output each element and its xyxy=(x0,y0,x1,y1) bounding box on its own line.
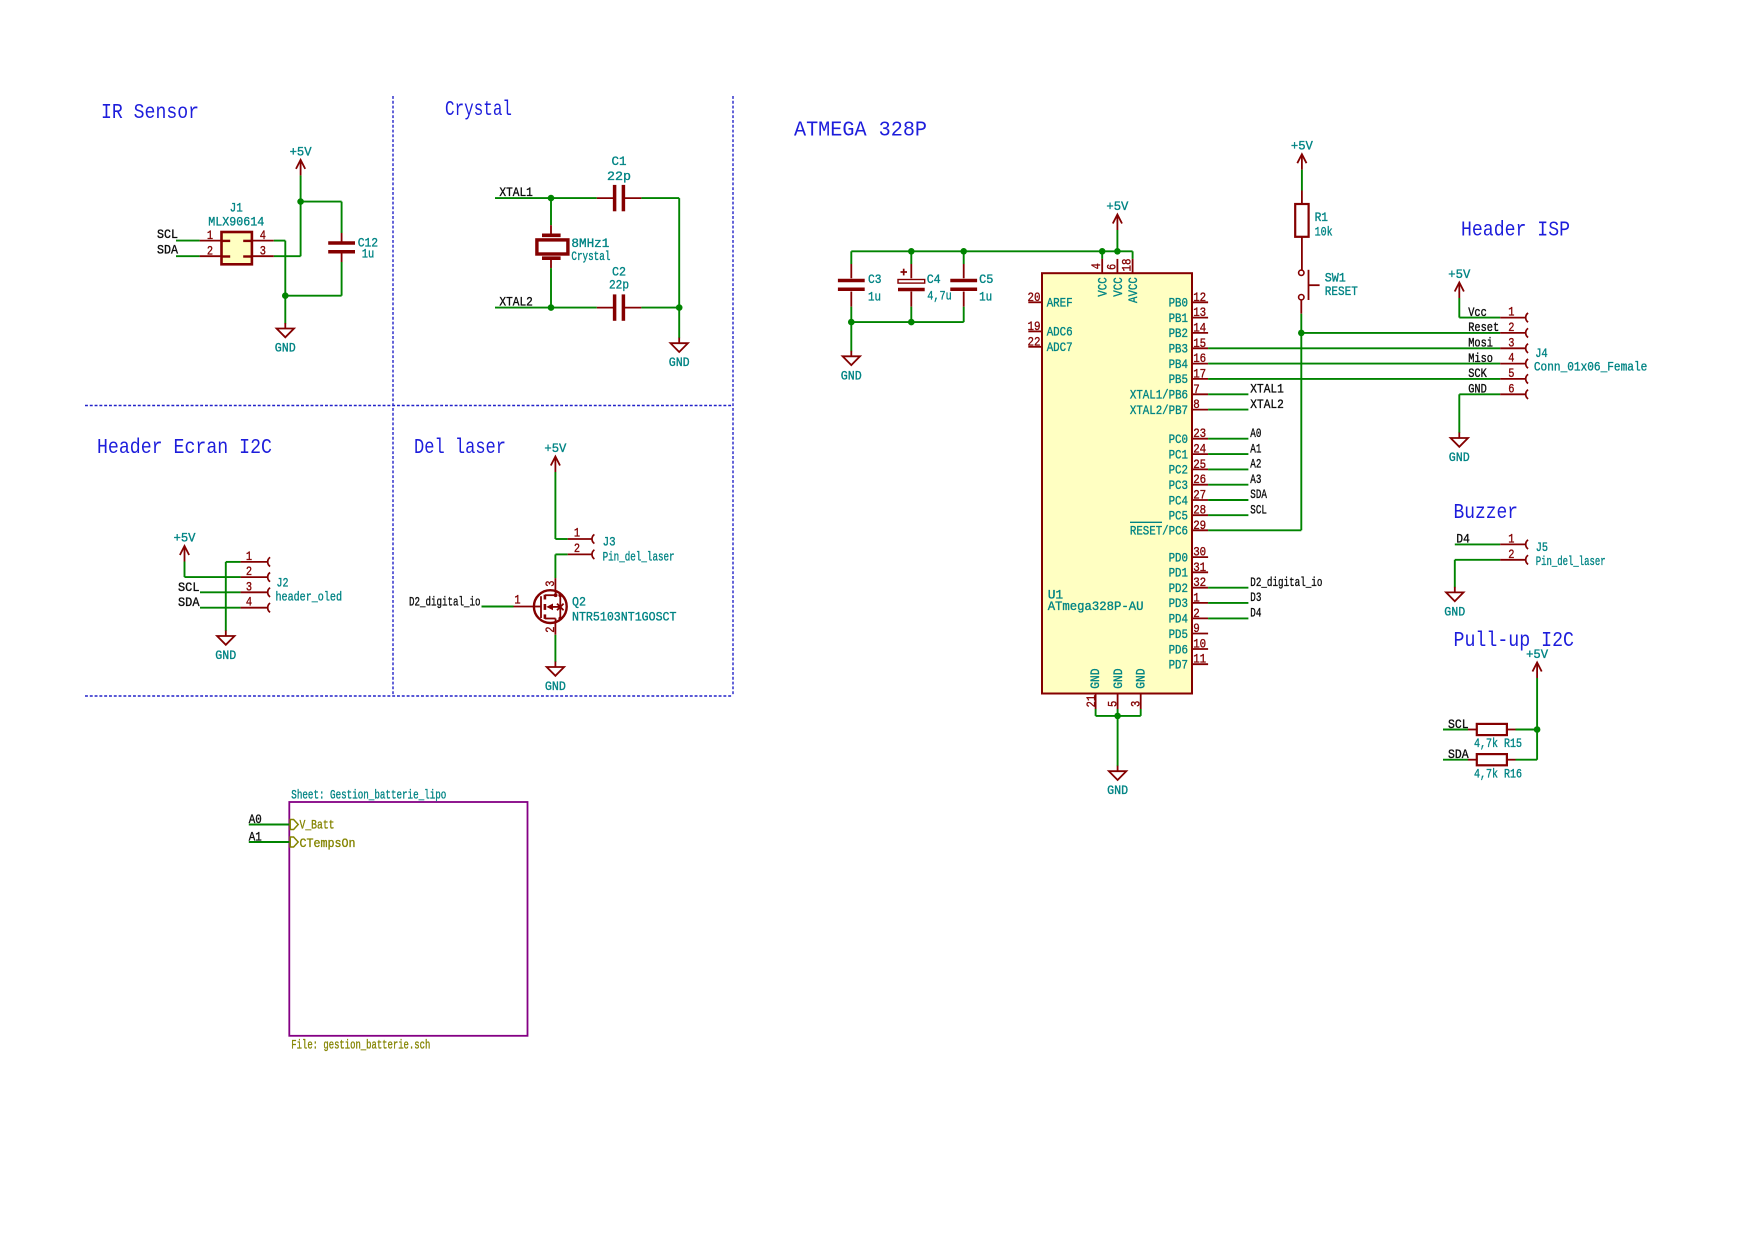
svg-text:22p: 22p xyxy=(609,278,629,293)
svg-text:header_oled: header_oled xyxy=(276,590,343,605)
svg-text:+5V: +5V xyxy=(290,144,312,159)
svg-text:4: 4 xyxy=(246,595,252,610)
svg-text:1: 1 xyxy=(207,228,213,243)
svg-text:Mosi: Mosi xyxy=(1468,336,1493,351)
svg-text:SDA: SDA xyxy=(178,595,200,610)
svg-text:C4: C4 xyxy=(927,272,941,287)
svg-text:10: 10 xyxy=(1193,637,1206,652)
svg-text:Del laser: Del laser xyxy=(414,437,506,460)
svg-text:13: 13 xyxy=(1193,305,1206,320)
svg-text:20: 20 xyxy=(1028,290,1041,305)
svg-text:4: 4 xyxy=(260,228,266,243)
svg-text:Crystal: Crystal xyxy=(445,99,512,122)
svg-text:4,7k R16: 4,7k R16 xyxy=(1474,766,1522,781)
svg-text:+5V: +5V xyxy=(1448,267,1470,282)
svg-text:XTAL1: XTAL1 xyxy=(1250,382,1284,397)
svg-text:SDA: SDA xyxy=(157,243,178,258)
svg-text:2: 2 xyxy=(574,541,580,556)
svg-text:24: 24 xyxy=(1193,442,1206,457)
svg-text:PB5: PB5 xyxy=(1169,372,1188,387)
svg-text:3: 3 xyxy=(1129,701,1144,707)
svg-text:PB3: PB3 xyxy=(1169,342,1188,357)
svg-text:1: 1 xyxy=(1508,305,1514,320)
svg-text:XTAL1/PB6: XTAL1/PB6 xyxy=(1130,388,1188,403)
svg-text:A2: A2 xyxy=(1250,457,1261,472)
svg-text:23: 23 xyxy=(1193,426,1206,441)
svg-text:2: 2 xyxy=(246,564,252,579)
svg-text:9: 9 xyxy=(1193,621,1200,636)
svg-text:Conn_01x06_Female: Conn_01x06_Female xyxy=(1534,360,1647,375)
svg-text:RESET/PC6: RESET/PC6 xyxy=(1130,524,1188,539)
svg-text:10k: 10k xyxy=(1315,224,1333,239)
svg-text:31: 31 xyxy=(1193,560,1206,575)
svg-text:6: 6 xyxy=(1508,381,1514,396)
svg-text:4,7u: 4,7u xyxy=(927,288,952,303)
svg-text:RESET: RESET xyxy=(1325,284,1358,299)
svg-text:GND: GND xyxy=(1088,668,1103,688)
svg-text:+5V: +5V xyxy=(1291,139,1313,154)
svg-text:GND: GND xyxy=(275,341,296,356)
svg-text:4: 4 xyxy=(1508,351,1514,366)
svg-text:PD1: PD1 xyxy=(1169,566,1189,581)
svg-text:SCL: SCL xyxy=(178,580,200,595)
svg-text:VCC: VCC xyxy=(1111,277,1126,297)
svg-text:GND: GND xyxy=(1134,668,1149,688)
svg-text:15: 15 xyxy=(1193,336,1206,351)
svg-text:Buzzer: Buzzer xyxy=(1454,502,1519,525)
svg-text:3: 3 xyxy=(1508,335,1514,350)
svg-text:VCC: VCC xyxy=(1096,277,1111,297)
svg-text:2: 2 xyxy=(207,244,213,259)
svg-text:19: 19 xyxy=(1028,319,1041,334)
svg-text:2: 2 xyxy=(1508,320,1514,335)
svg-text:GND: GND xyxy=(1444,604,1465,619)
svg-text:28: 28 xyxy=(1193,503,1206,518)
svg-text:C1: C1 xyxy=(612,154,627,169)
svg-text:PB1: PB1 xyxy=(1169,311,1189,326)
svg-text:XTAL2/PB7: XTAL2/PB7 xyxy=(1130,403,1188,418)
svg-text:A0: A0 xyxy=(1250,426,1261,441)
svg-text:PB4: PB4 xyxy=(1169,357,1189,372)
svg-text:SCK: SCK xyxy=(1468,366,1487,381)
svg-text:Q2: Q2 xyxy=(572,595,586,610)
svg-text:AVCC: AVCC xyxy=(1126,277,1141,303)
svg-text:1u: 1u xyxy=(979,289,992,304)
svg-text:Reset: Reset xyxy=(1468,320,1499,335)
svg-text:ATmega328P-AU: ATmega328P-AU xyxy=(1048,599,1144,614)
svg-text:J2: J2 xyxy=(277,576,289,591)
svg-text:5: 5 xyxy=(1508,366,1514,381)
svg-text:2: 2 xyxy=(1508,547,1514,562)
svg-text:ADC6: ADC6 xyxy=(1047,325,1073,340)
svg-text:J1: J1 xyxy=(230,201,243,216)
svg-text:SDA: SDA xyxy=(1250,487,1267,502)
svg-text:C3: C3 xyxy=(868,272,882,287)
svg-text:C5: C5 xyxy=(979,272,993,287)
svg-text:D2_digital_io: D2_digital_io xyxy=(409,594,481,609)
svg-text:1: 1 xyxy=(1508,531,1514,546)
svg-text:Miso: Miso xyxy=(1468,351,1493,366)
svg-text:PC5: PC5 xyxy=(1169,509,1188,524)
svg-text:25: 25 xyxy=(1193,457,1206,472)
svg-text:J5: J5 xyxy=(1536,540,1548,555)
svg-text:32: 32 xyxy=(1193,575,1206,590)
svg-text:2: 2 xyxy=(1193,606,1200,621)
svg-text:3: 3 xyxy=(260,244,266,259)
svg-text:21: 21 xyxy=(1084,695,1099,708)
svg-text:1: 1 xyxy=(574,526,580,541)
svg-text:3: 3 xyxy=(246,579,252,594)
svg-text:PD3: PD3 xyxy=(1169,596,1188,611)
svg-text:PD5: PD5 xyxy=(1169,627,1188,642)
svg-text:14: 14 xyxy=(1193,320,1206,335)
svg-text:D3: D3 xyxy=(1250,590,1261,605)
svg-text:26: 26 xyxy=(1193,472,1206,487)
svg-text:12: 12 xyxy=(1193,290,1206,305)
svg-text:Header Ecran I2C: Header Ecran I2C xyxy=(97,437,272,460)
svg-text:PC3: PC3 xyxy=(1169,478,1188,493)
svg-text:V_Batt: V_Batt xyxy=(300,818,335,833)
svg-text:Crystal: Crystal xyxy=(571,249,610,264)
svg-text:GND: GND xyxy=(545,679,566,694)
svg-text:3: 3 xyxy=(543,581,558,587)
svg-text:PC4: PC4 xyxy=(1169,493,1189,508)
svg-text:PD6: PD6 xyxy=(1169,642,1188,657)
svg-text:ADC7: ADC7 xyxy=(1047,340,1073,355)
svg-text:A3: A3 xyxy=(1250,472,1261,487)
svg-text:J3: J3 xyxy=(603,535,616,550)
svg-text:4: 4 xyxy=(1089,263,1104,269)
svg-text:Vcc: Vcc xyxy=(1468,305,1487,320)
svg-text:GND: GND xyxy=(1107,783,1128,798)
svg-text:1: 1 xyxy=(514,593,520,608)
svg-text:+5V: +5V xyxy=(174,531,196,546)
svg-text:PC0: PC0 xyxy=(1169,432,1188,447)
svg-text:Pin_del_laser: Pin_del_laser xyxy=(603,550,675,565)
svg-text:30: 30 xyxy=(1193,545,1206,560)
svg-text:MLX90614: MLX90614 xyxy=(208,214,264,229)
svg-text:GND: GND xyxy=(1468,382,1487,397)
svg-text:27: 27 xyxy=(1193,488,1206,503)
svg-text:29: 29 xyxy=(1193,518,1206,533)
svg-text:PB2: PB2 xyxy=(1169,326,1188,341)
svg-text:11: 11 xyxy=(1193,652,1206,667)
svg-text:IR Sensor: IR Sensor xyxy=(101,102,199,125)
svg-text:18: 18 xyxy=(1120,259,1135,272)
svg-text:Header ISP: Header ISP xyxy=(1461,220,1570,243)
svg-text:D2_digital_io: D2_digital_io xyxy=(1250,575,1322,590)
svg-text:XTAL2: XTAL2 xyxy=(1250,397,1284,412)
svg-text:PD7: PD7 xyxy=(1169,658,1188,673)
svg-text:SCL: SCL xyxy=(1250,502,1267,517)
svg-text:PD0: PD0 xyxy=(1169,550,1188,565)
svg-text:4,7k R15: 4,7k R15 xyxy=(1474,736,1522,751)
svg-text:GND: GND xyxy=(841,368,862,383)
svg-text:5: 5 xyxy=(1105,701,1120,707)
svg-text:SCL: SCL xyxy=(157,227,178,242)
svg-text:GND: GND xyxy=(1111,668,1126,688)
svg-text:7: 7 xyxy=(1193,382,1200,397)
svg-text:PD4: PD4 xyxy=(1169,612,1189,627)
svg-text:GND: GND xyxy=(669,355,690,370)
svg-text:NTR5103NT1GOSCT: NTR5103NT1GOSCT xyxy=(572,610,677,625)
svg-text:PC1: PC1 xyxy=(1169,447,1189,462)
svg-text:17: 17 xyxy=(1193,366,1206,381)
svg-text:Sheet: Gestion_batterie_lipo: Sheet: Gestion_batterie_lipo xyxy=(291,788,446,803)
svg-text:+5V: +5V xyxy=(1526,647,1548,662)
svg-text:+5V: +5V xyxy=(544,441,566,456)
svg-text:R1: R1 xyxy=(1315,210,1329,225)
svg-text:A1: A1 xyxy=(1250,441,1261,456)
svg-text:AREF: AREF xyxy=(1047,296,1073,311)
svg-text:GND: GND xyxy=(215,648,236,663)
svg-text:GND: GND xyxy=(1449,450,1470,465)
svg-text:6: 6 xyxy=(1104,264,1119,270)
svg-text:PC2: PC2 xyxy=(1169,463,1188,478)
svg-text:22p: 22p xyxy=(607,169,631,184)
svg-text:ATMEGA 328P: ATMEGA 328P xyxy=(794,120,927,143)
svg-text:1u: 1u xyxy=(362,247,375,262)
svg-text:File: gestion_batterie.sch: File: gestion_batterie.sch xyxy=(291,1038,430,1053)
svg-text:CTempsOn: CTempsOn xyxy=(300,836,356,851)
svg-text:1: 1 xyxy=(1193,590,1200,605)
svg-text:16: 16 xyxy=(1193,351,1206,366)
svg-text:1u: 1u xyxy=(868,289,881,304)
svg-text:1: 1 xyxy=(246,549,252,564)
svg-text:Pin_del_laser: Pin_del_laser xyxy=(1536,554,1606,569)
svg-text:8: 8 xyxy=(1193,397,1200,412)
svg-text:+5V: +5V xyxy=(1106,199,1128,214)
svg-text:22: 22 xyxy=(1028,334,1041,349)
svg-text:PB0: PB0 xyxy=(1169,296,1188,311)
svg-text:Pull-up I2C: Pull-up I2C xyxy=(1454,630,1575,653)
svg-text:D4: D4 xyxy=(1250,606,1261,621)
svg-text:PD2: PD2 xyxy=(1169,581,1188,596)
